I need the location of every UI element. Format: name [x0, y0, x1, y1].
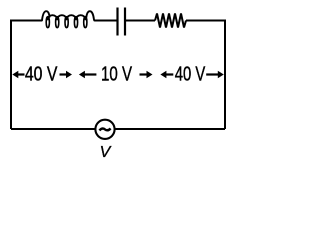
svg-text:40 V: 40 V [175, 64, 206, 86]
svg-text:40 V: 40 V [25, 64, 58, 86]
svg-text:10 V: 10 V [101, 64, 132, 86]
svg-text:V: V [100, 144, 112, 161]
